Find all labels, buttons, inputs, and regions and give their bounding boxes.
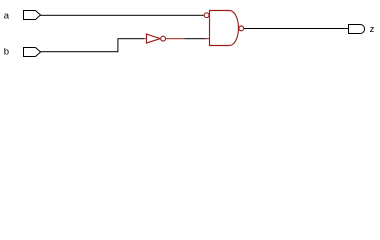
svg-text:a: a [4,10,10,21]
svg-text:b: b [4,47,9,58]
svg-text:z: z [370,24,375,35]
